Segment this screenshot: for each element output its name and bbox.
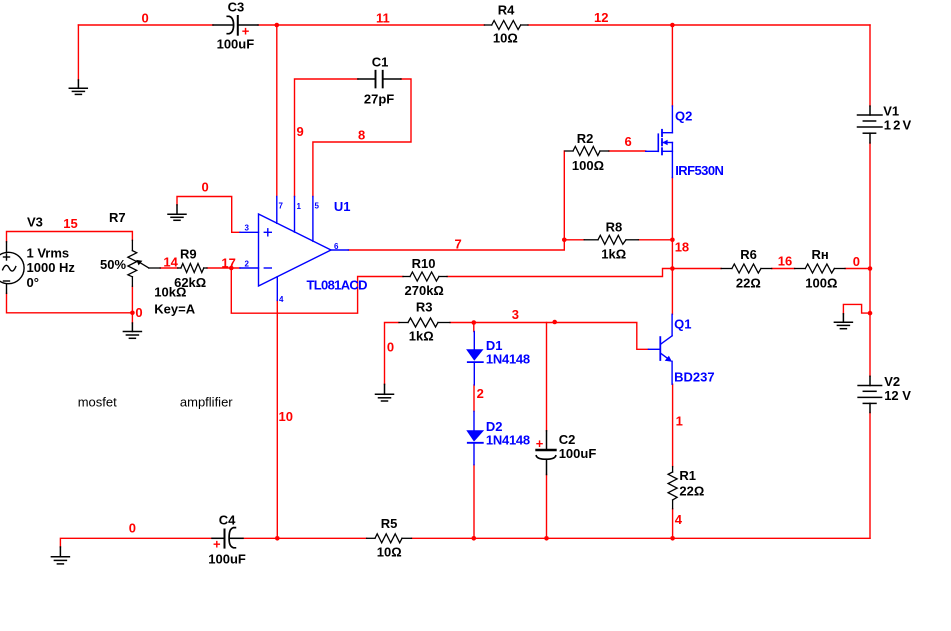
resistor R9 — [178, 264, 207, 273]
voltage source V3 — [0, 242, 24, 293]
wire net 0 V3 bottom rail — [7, 293, 133, 313]
svg-text:R7: R7 — [109, 210, 126, 225]
junction node 0 bottom rail at C2 branch — [544, 536, 549, 541]
svg-text:R8: R8 — [606, 219, 623, 234]
wire net 11 drop to op-amp pin 7 — [276, 25, 278, 197]
wire net 0 bottom rail C4 to R5 — [243, 537, 367, 539]
capacitor C4 — [212, 528, 243, 548]
wire net 4 R1 to bottom rail — [672, 509, 674, 539]
resistor RH load — [795, 264, 846, 273]
wire net 3 drop to C2 — [546, 323, 548, 431]
capacitor C3 — [213, 16, 258, 35]
wire net 12 drop to Q2 drain — [671, 25, 673, 106]
svg-text:R3: R3 — [416, 299, 433, 314]
svg-text:C2: C2 — [559, 432, 576, 447]
svg-text:8: 8 — [358, 127, 365, 142]
resistor R5 — [367, 534, 412, 543]
svg-text:R2: R2 — [577, 131, 594, 146]
svg-text:C3: C3 — [228, 0, 245, 15]
junction node 0 bottom rail at pin4 drop — [275, 536, 280, 541]
svg-text:R6: R6 — [740, 247, 757, 262]
svg-text:V2: V2 — [884, 374, 900, 389]
wire net 7 branch up to R2 — [563, 151, 565, 240]
junction node on top rail at pin7 drop — [275, 23, 280, 28]
wire net 12 top rail R4 to V1 — [528, 24, 870, 26]
ground right middle (net 0) — [834, 314, 852, 329]
svg-text:1N4148: 1N4148 — [486, 352, 530, 367]
svg-text:3: 3 — [512, 307, 519, 322]
svg-text:9: 9 — [297, 124, 304, 139]
resistor R3 — [399, 318, 450, 327]
svg-text:100Ω: 100Ω — [805, 276, 837, 291]
svg-text:BD237: BD237 — [674, 369, 714, 384]
svg-text:11: 11 — [376, 11, 390, 26]
battery V1 — [858, 106, 883, 143]
svg-text:1000 Hz: 1000 Hz — [27, 260, 76, 275]
svg-text:mosfet: mosfet — [78, 395, 117, 410]
wire net 9 C1 left leg — [295, 79, 358, 197]
svg-text:100Ω: 100Ω — [572, 158, 604, 173]
capacitor C1 — [358, 71, 401, 88]
svg-text:0: 0 — [129, 521, 136, 536]
svg-text:0: 0 — [135, 305, 142, 320]
svg-text:100uF: 100uF — [208, 551, 246, 566]
wire net 0 jog to right ground — [843, 304, 870, 313]
junction node 18 at R8 right — [670, 238, 675, 243]
junction node 3 at C2 branch — [552, 320, 557, 325]
svg-text:0: 0 — [387, 340, 394, 355]
wire net 15 V3 top to R7 — [7, 232, 133, 242]
svg-text:Q2: Q2 — [675, 109, 692, 124]
svg-text:16: 16 — [778, 253, 792, 268]
svg-text:1 Vrms: 1 Vrms — [27, 246, 70, 261]
svg-text:1N4148: 1N4148 — [486, 433, 530, 448]
svg-text:10kΩ: 10kΩ — [154, 285, 186, 300]
svg-text:D1: D1 — [486, 338, 503, 353]
svg-text:6: 6 — [334, 242, 339, 251]
svg-text:0: 0 — [142, 11, 149, 26]
wire net 3 R3 left leg to ground — [385, 323, 400, 385]
svg-text:Key=A: Key=A — [154, 302, 195, 317]
junction node on top rail at Q2 drain — [670, 23, 675, 28]
svg-text:1: 1 — [676, 414, 683, 429]
svg-text:6: 6 — [625, 134, 632, 149]
wire net 11 top rail C3 to R4 — [258, 24, 484, 26]
diode D2 1N4148 — [466, 411, 484, 464]
svg-text:U1: U1 — [334, 199, 351, 214]
svg-text:0: 0 — [202, 180, 209, 195]
transistor Q1 BD237 — [648, 314, 672, 384]
svg-text:4: 4 — [675, 512, 683, 527]
wire net 2 between D1 and D2 — [473, 385, 475, 412]
junction node 0 bottom rail at R1 — [670, 536, 675, 541]
svg-text:15: 15 — [63, 216, 77, 231]
wire net 16 R6 to RH — [772, 268, 795, 270]
resistor R8 — [584, 235, 638, 244]
svg-text:1kΩ: 1kΩ — [409, 329, 434, 344]
wire net 10 op-amp pin 4 down to bottom rail — [276, 300, 278, 538]
svg-text:R1: R1 — [679, 468, 696, 483]
svg-text:R10: R10 — [412, 256, 436, 271]
ground at op-amp plus input — [168, 205, 186, 220]
battery V2 — [858, 376, 882, 412]
svg-text:5: 5 — [315, 202, 320, 211]
svg-text:C1: C1 — [372, 55, 389, 70]
svg-text:100uF: 100uF — [559, 446, 597, 461]
diode D1 1N4148 — [466, 332, 483, 385]
wire net 6 R2 to Q2 gate — [609, 150, 646, 152]
svg-text:12: 12 — [594, 10, 608, 25]
svg-text:10: 10 — [279, 409, 293, 424]
wire C2 bottom to bottom rail — [546, 475, 548, 539]
wire net 0 bottom rail left segment — [60, 538, 212, 547]
svg-text:18: 18 — [675, 239, 689, 254]
svg-text:10Ω: 10Ω — [377, 545, 402, 560]
wire net 0 ground to op-amp plus input — [177, 197, 240, 233]
wire V2 minus down right edge — [869, 413, 871, 539]
ground under R7 (net 0) — [123, 323, 141, 338]
svg-text:7: 7 — [279, 202, 284, 211]
junction node 7 at R8/R2 corner — [562, 238, 567, 243]
wire net 17 loop below op-amp to R10 — [231, 268, 403, 313]
junction node 0 right edge at ground jog — [868, 311, 873, 316]
resistor R4 — [484, 21, 528, 30]
wire net 8 C1 right leg — [313, 79, 411, 197]
svg-text:100uF: 100uF — [217, 37, 255, 52]
svg-text:1kΩ: 1kΩ — [601, 246, 626, 261]
potentiometer R7 — [128, 240, 160, 286]
svg-text:7: 7 — [455, 237, 462, 252]
junction node 0 right edge at RH row — [868, 266, 873, 271]
wire net 3 drop to D1 — [473, 323, 475, 332]
svg-text:0: 0 — [853, 254, 860, 269]
junction node 0 bottom rail at diode branch — [472, 536, 477, 541]
svg-text:4: 4 — [279, 295, 284, 304]
wire net 12 right edge down to V1 — [869, 25, 871, 106]
wire net 7 op-amp output to R8 corner — [348, 240, 584, 250]
svg-text:270kΩ: 270kΩ — [405, 283, 444, 298]
svg-text:Q1: Q1 — [674, 316, 691, 331]
svg-text:3: 3 — [245, 224, 250, 233]
svg-text:TL081ACD: TL081ACD — [307, 278, 368, 293]
resistor R10 — [403, 272, 447, 281]
svg-text:50%: 50% — [100, 257, 126, 272]
resistor R2 — [565, 147, 609, 156]
ground bottom-left — [51, 547, 69, 564]
svg-text:12V: 12V — [884, 118, 912, 133]
junction node 0 under R7 — [130, 311, 135, 316]
wire net 18 Q2 source down to Q1 collector — [671, 178, 673, 315]
svg-text:12 V: 12 V — [884, 388, 911, 403]
wire net 18 junction to R6 — [672, 268, 721, 270]
wire net 18 R8 to Q2 source column — [638, 239, 672, 241]
svg-text:22Ω: 22Ω — [736, 276, 761, 291]
junction node 18 at R6 row — [670, 266, 675, 271]
ground top-left — [69, 80, 87, 94]
wire net 0 RH to right edge — [845, 268, 870, 270]
svg-text:27pF: 27pF — [364, 91, 394, 106]
wire net 0 bottom rail R5 to right edge — [412, 537, 871, 539]
svg-text:Rн: Rн — [812, 247, 829, 262]
transistor Q2 IRF530N — [646, 106, 673, 178]
wire V1 minus to V2 plus right edge — [869, 143, 871, 376]
capacitor C2 — [536, 431, 555, 475]
svg-text:R5: R5 — [381, 516, 398, 531]
svg-text:17: 17 — [221, 256, 235, 271]
junction node 17 at op-amp minus input — [229, 266, 234, 271]
junction node 3 at D1 branch — [472, 320, 477, 325]
svg-text:R4: R4 — [498, 3, 515, 18]
svg-text:0°: 0° — [27, 275, 39, 290]
op-amp U1 TL081ACD — [240, 197, 348, 301]
wire D2 cathode to bottom rail — [473, 465, 475, 539]
svg-text:ampflifier: ampflifier — [180, 395, 233, 410]
svg-text:IRF530N: IRF530N — [675, 163, 724, 178]
svg-text:1: 1 — [297, 202, 302, 211]
wire net 14 wiper to R9 — [160, 267, 178, 269]
resistor R1 — [668, 467, 677, 509]
svg-text:R9: R9 — [180, 247, 197, 262]
wire net 1 Q1 emitter to R1 — [672, 384, 674, 466]
svg-text:14: 14 — [163, 254, 178, 269]
svg-text:+: + — [213, 537, 221, 552]
svg-text:V1: V1 — [883, 104, 899, 119]
wire R7 bottom to ground — [131, 286, 133, 323]
svg-text:2: 2 — [477, 386, 484, 401]
ground under R3 (net 0) — [376, 384, 394, 401]
wire net 3 R3 to Q1 base — [450, 323, 648, 350]
svg-text:C4: C4 — [219, 512, 236, 527]
svg-text:10Ω: 10Ω — [493, 30, 518, 45]
svg-text:2: 2 — [245, 260, 250, 269]
wire net 17 R9 to op-amp minus input — [207, 267, 240, 269]
wire net 0 top rail left of C3 — [78, 24, 213, 26]
wire net 17 R10 right jog to node 18 — [447, 269, 672, 277]
resistor R6 — [721, 264, 772, 273]
wire ground drop top-left — [77, 25, 79, 80]
svg-text:+: + — [536, 436, 544, 451]
svg-text:V3: V3 — [27, 215, 43, 230]
svg-text:22Ω: 22Ω — [679, 483, 704, 498]
